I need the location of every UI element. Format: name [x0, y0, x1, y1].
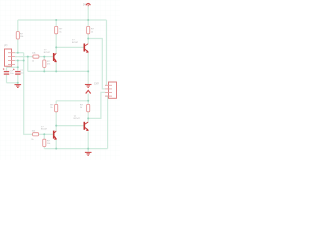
- wire: CN pin3 riser to bottom output: [88, 92, 105, 118]
- wire: long vertical to bottom stage input: [24, 53, 33, 135]
- wire: VCC flag stem: [87, 6, 89, 20]
- resistor R2 (T1 base shunt): [43, 60, 46, 67]
- svg-text:10k: 10k: [47, 143, 50, 145]
- resistor R7 (bottom right collector): [87, 104, 90, 111]
- wire: emitter rail top stage: [28, 70, 88, 72]
- wire: pin2 drop to emitter rail: [27, 57, 29, 72]
- wire: CN pin4 drop to bottom rail: [105, 96, 108, 149]
- transistor T1: [54, 53, 57, 62]
- wire: bottom coupling line T3 collector to T4 base: [56, 125, 84, 127]
- svg-text:BC547: BC547: [74, 118, 81, 120]
- svg-text:10u: 10u: [20, 73, 23, 75]
- wire: ground line: [7, 82, 18, 84]
- transistor T3: [54, 131, 57, 140]
- svg-text:CN?: CN?: [94, 82, 99, 85]
- svg-text:5V: 5V: [83, 3, 86, 6]
- wire: R2 bottom lead: [43, 67, 45, 71]
- wire: J1 pin3 row: [15, 60, 24, 62]
- wire: GND3 stem: [87, 149, 89, 153]
- resistor R1 (T1 base series): [33, 55, 39, 58]
- resistor R5 (on pin1 riser): [16, 32, 19, 39]
- capacitor C1: [4, 72, 9, 75]
- node caps feed corner: [17, 66, 19, 68]
- node pin1 riser tee: [17, 52, 19, 54]
- node R2 emitter rail: [43, 70, 45, 72]
- transistor T4: [84, 122, 88, 131]
- node pin2 gnd drop: [27, 56, 29, 58]
- power flag VCC: [86, 3, 90, 6]
- wire: R7 leads: [87, 101, 89, 119]
- svg-text:1k: 1k: [91, 31, 93, 33]
- capacitor C2: [15, 72, 20, 75]
- wire: R8 into T3 base: [39, 133, 53, 135]
- wire: T3 collector lead: [55, 126, 57, 131]
- node bottom rail T3: [55, 148, 57, 150]
- node R2 base: [43, 56, 45, 58]
- wire: R4 leads on right column: [87, 20, 89, 39]
- node bottom supply: [87, 100, 89, 102]
- junction dots: [17, 19, 89, 150]
- wire: T4 emitter lead: [87, 131, 89, 148]
- node emitter rail T1: [55, 70, 57, 72]
- wire: R3 leads on left column: [55, 20, 57, 47]
- wire: J1 pin2 row into R1: [15, 56, 33, 58]
- resistor R8 (T3 base series): [33, 133, 39, 136]
- wire: C1 bottom lead: [6, 75, 8, 83]
- wire: T1 collector lead: [55, 47, 57, 53]
- svg-text:BC547: BC547: [72, 42, 79, 44]
- node bottom rail gnd: [87, 148, 89, 150]
- wire: top output line to CN pin2: [88, 39, 105, 89]
- node rail VCC: [87, 19, 89, 21]
- wire: R9 leads: [43, 134, 45, 148]
- wire: T3 emitter lead: [55, 140, 57, 149]
- svg-text:1k: 1k: [80, 107, 82, 109]
- svg-text:1k: 1k: [32, 60, 34, 62]
- node emitter rail gnd: [87, 70, 89, 72]
- wire: T2 emitter lead: [87, 53, 89, 71]
- wire: bottom supply rail: [56, 100, 88, 102]
- node T4 collector: [87, 117, 89, 119]
- wire: coupling line T1 collector to T2 base: [56, 46, 84, 48]
- node pin3 cap feed: [17, 60, 19, 62]
- wire: T2 collector lead: [87, 39, 89, 44]
- node R9 base: [43, 133, 45, 135]
- svg-text:10k: 10k: [20, 36, 23, 38]
- wire: GND1 stem: [17, 83, 19, 85]
- wire: left riser from J1 pin1 through R5 to rail: [17, 20, 19, 53]
- wire: T4 collector lead: [87, 118, 89, 121]
- svg-text:1k: 1k: [50, 107, 52, 109]
- wire: caps feed line left: [7, 66, 18, 68]
- ground GND2: [85, 85, 92, 88]
- ground GND3: [85, 152, 92, 155]
- wire: VCC top rail: [18, 19, 107, 21]
- ground GND1: [15, 85, 22, 88]
- connector J1: [5, 49, 12, 66]
- wire: C2 bottom lead: [17, 75, 19, 83]
- resistor R6 (bottom left collector): [55, 104, 58, 111]
- node rail R3: [55, 19, 57, 21]
- resistor R4 (top right collector): [87, 26, 90, 33]
- node gnd line: [17, 82, 19, 84]
- power arrow bottom: [86, 90, 91, 93]
- wire: rail riser to CN pin1: [105, 20, 107, 85]
- svg-text:BC547: BC547: [44, 52, 51, 54]
- wire: C1 top lead: [6, 67, 8, 70]
- wire: GND2 stem: [87, 71, 89, 84]
- node T2 collector: [87, 38, 89, 40]
- wire: caps feed drop: [17, 61, 19, 71]
- node T1 collector: [55, 46, 57, 48]
- connector CN1: [109, 82, 117, 98]
- wire: R2 top lead: [43, 57, 45, 60]
- background grid: [0, 0, 120, 160]
- svg-text:47k: 47k: [47, 63, 50, 65]
- node T3 collector: [55, 125, 57, 127]
- transistor T2: [84, 44, 88, 53]
- svg-text:1k: 1k: [59, 31, 61, 33]
- wire: R6 leads: [55, 101, 57, 126]
- wire: bottom ground rail: [44, 148, 107, 150]
- svg-text:BC547: BC547: [41, 129, 48, 131]
- resistor R9 (T3 base shunt): [43, 139, 46, 146]
- wire: J1 pin1 row: [15, 52, 24, 54]
- wire: bottom power stem: [87, 94, 89, 101]
- wire: R1 to T1 base: [39, 56, 53, 58]
- node pin3 long wire: [23, 60, 25, 62]
- text labels: [5, 3, 100, 145]
- svg-text:10u: 10u: [10, 73, 13, 75]
- wire: T1 emitter lead: [55, 62, 57, 71]
- svg-text:1k: 1k: [31, 139, 33, 141]
- resistor R3 (top left collector): [55, 26, 58, 33]
